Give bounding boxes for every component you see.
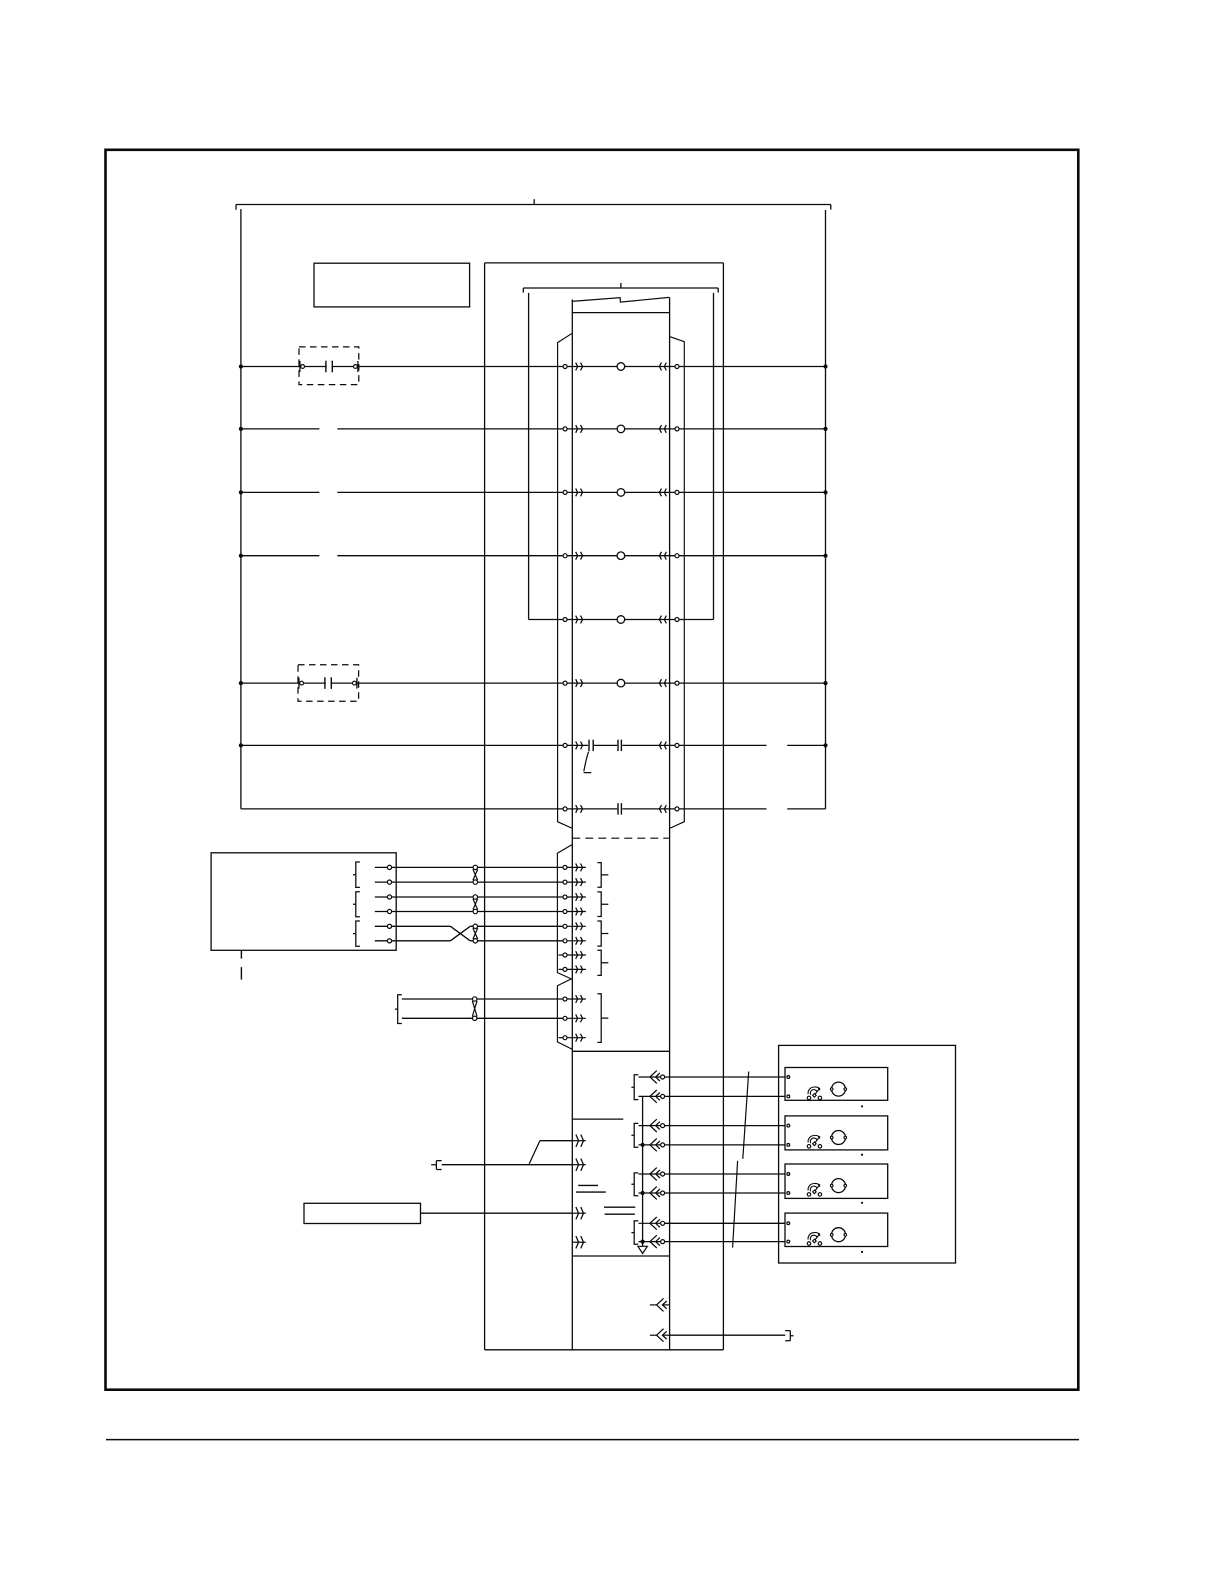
bus pin b1 — [639, 1071, 665, 1084]
pair bracket B6 — [597, 892, 608, 917]
sensor wire w4 — [375, 909, 563, 913]
connector C2 pin p5 — [563, 922, 586, 930]
pair bracket B2 — [353, 892, 360, 917]
junction row6 left — [239, 681, 243, 685]
inner bracket right — [713, 293, 715, 620]
gauge unit G2 motor symbol — [830, 1131, 846, 1145]
gauge feed wire 5 — [665, 1173, 785, 1175]
pair bracket B5 — [597, 863, 608, 888]
ground — [638, 1246, 647, 1253]
junction row3 left — [239, 490, 243, 494]
terminal T2 — [785, 1331, 793, 1341]
gauge feed wire 6 — [665, 1192, 785, 1194]
break mark c — [604, 1206, 635, 1208]
pair bracket B4 — [395, 995, 402, 1024]
speck 3 — [861, 1202, 863, 1204]
wire terminal T1 to C3 — [442, 1164, 573, 1166]
connector C1 pins row6 — [563, 679, 679, 687]
pair bracket B11 — [631, 1123, 638, 1147]
connector C2 pin p3 — [563, 893, 586, 901]
junction row2 right — [823, 427, 827, 431]
junction row4 left — [239, 554, 243, 558]
connector C2 pin p11 — [559, 1034, 586, 1042]
connector C1 torn top — [572, 297, 669, 302]
gauge unit G2 box — [785, 1116, 888, 1150]
gauge feed wire 2 — [665, 1095, 785, 1097]
sensor wire w5 crossover — [375, 924, 563, 941]
connector C1 pins row7 — [563, 739, 679, 751]
connector C2 pin p2 — [563, 878, 586, 886]
twisted pair T1 — [473, 865, 478, 884]
connector C1 right wall — [669, 297, 671, 1349]
connector C1 pins row8 — [563, 803, 679, 815]
gauge unit G2 pins — [787, 1124, 790, 1146]
connector C3 pin q4 — [572, 1236, 586, 1248]
connector C3 pin q3 — [572, 1207, 586, 1219]
harness box left edge — [484, 263, 486, 1350]
pair bracket B12 — [631, 1173, 638, 1196]
gauge unit G3 box — [785, 1164, 888, 1198]
gauge unit G3 motor symbol — [830, 1179, 846, 1193]
connector C1 pins row1 — [563, 363, 679, 371]
inner bracket left — [528, 293, 530, 620]
top box top edge — [236, 199, 831, 210]
compartment line — [573, 1118, 624, 1120]
gauge feed wire 1 — [665, 1076, 785, 1078]
connector C1 top divider — [572, 312, 669, 314]
gauge unit G1 meter icon — [807, 1087, 821, 1100]
wire row8 right — [787, 808, 825, 810]
sensor wire w2 — [375, 880, 563, 884]
gauge feed wire 3 — [665, 1125, 785, 1127]
sensor box — [211, 853, 396, 951]
bus pin b3 — [639, 1119, 665, 1132]
relay contact K1 terminals — [300, 360, 358, 373]
harness box right edge — [722, 263, 724, 1350]
pair bracket B1 — [353, 862, 360, 887]
gauge feed wire 4 — [665, 1144, 785, 1146]
twisted pair T2 — [473, 895, 478, 914]
gauge unit G1 pins — [787, 1076, 790, 1098]
sensor box dashed stub — [240, 951, 242, 980]
break mark a — [578, 1184, 598, 1186]
top box left edge — [240, 209, 242, 809]
connector C4 pin r2 — [650, 1329, 670, 1342]
pair bracket B10 — [631, 1075, 638, 1100]
ground bus junction 2 — [641, 1191, 645, 1195]
connector C4 pin r1 — [650, 1298, 670, 1311]
label box — [314, 263, 470, 307]
connector C1 shell right — [670, 337, 685, 829]
junction row1 left — [239, 364, 243, 368]
ground bus junction 1 — [641, 1143, 645, 1147]
relay contact K1 dashed box — [299, 347, 359, 385]
gauge feed wire 7 — [665, 1222, 785, 1224]
junction row6 right — [823, 681, 827, 685]
speck 2 — [861, 1154, 863, 1156]
connector C3 bottom line — [573, 1255, 670, 1257]
top box right edge — [825, 210, 827, 809]
bus pin b4 — [639, 1139, 665, 1152]
junction row2 left — [239, 427, 243, 431]
bus pin b5 — [639, 1168, 665, 1181]
wire row7 left — [241, 744, 767, 746]
connector C2 pin p6 — [563, 937, 586, 945]
bus pin b2 — [639, 1090, 665, 1103]
bus pin b7 — [639, 1217, 665, 1230]
sensor wire w1 — [375, 865, 563, 869]
branch elbow — [529, 1141, 572, 1164]
wire row4 right — [337, 555, 825, 557]
connector C2 pin p9 — [563, 995, 586, 1003]
harness slash mark — [733, 1072, 749, 1248]
wire C4 to terminal — [670, 1334, 786, 1336]
sensor wire w6 crossover — [375, 926, 563, 943]
wire row3 left — [241, 491, 320, 493]
shield wire g2 — [402, 1017, 563, 1019]
connector C2 pin p7 — [559, 951, 586, 959]
connector C1 pins row3 — [563, 489, 679, 497]
ground bus junction 3 — [641, 1240, 645, 1244]
connector C2 shell — [557, 845, 572, 1049]
connector C1 shell left — [558, 333, 573, 828]
gauge feed wire 8 — [665, 1241, 785, 1243]
twisted pair T3 — [473, 924, 478, 943]
bus pin b6 — [639, 1187, 665, 1200]
junction row4 right — [823, 554, 827, 558]
connector C2 bottom line — [572, 1050, 669, 1052]
wire row7 right — [787, 744, 825, 746]
connector C2 pin p8 — [559, 966, 586, 974]
gauge unit G4 meter icon — [807, 1233, 821, 1246]
resistor box — [304, 1203, 421, 1223]
connector C1 left wall — [571, 300, 573, 1350]
connector C2 pin p1 — [563, 864, 586, 872]
wire row5 — [529, 619, 714, 621]
connector C2 pin p10 — [563, 1014, 586, 1022]
connector C1 pins row2 — [563, 425, 679, 433]
wire row4 left — [241, 555, 320, 557]
footer rule — [106, 1439, 1079, 1441]
gauge unit G1 box — [785, 1068, 888, 1101]
connector C1 pins row5 — [563, 616, 679, 624]
gauge unit G4 pins — [787, 1222, 790, 1243]
break mark b — [576, 1191, 606, 1193]
sensor wire w3 — [375, 895, 563, 899]
harness box top edge — [485, 262, 724, 264]
gauge unit G4 motor symbol — [830, 1228, 846, 1242]
pair bracket B9 — [597, 994, 608, 1043]
wire row2 left — [241, 428, 320, 430]
pair bracket B3 — [353, 921, 360, 946]
wire resistor to C3 — [421, 1212, 573, 1214]
wire row8 left — [241, 808, 767, 810]
speck 4 — [861, 1251, 863, 1253]
terminal T1 — [431, 1161, 442, 1170]
junction row7 right — [823, 743, 827, 747]
gauge unit G3 meter icon — [807, 1183, 821, 1196]
inner bracket top — [523, 283, 718, 293]
shield wire g1 — [402, 998, 563, 1000]
pair bracket B13 — [631, 1221, 638, 1244]
frame border — [106, 150, 1079, 1390]
junction row3 right — [823, 490, 827, 494]
harness box bottom edge — [485, 1349, 724, 1351]
pair bracket B7 — [597, 921, 608, 946]
connector C3 pin q1 — [572, 1135, 586, 1147]
bus pin b8 — [639, 1235, 665, 1248]
connector C1 pins row4 — [563, 552, 679, 560]
junction row1 right — [823, 364, 827, 368]
wire row6 — [241, 682, 826, 684]
gauge unit G1 motor symbol — [830, 1082, 846, 1096]
break mark d — [605, 1213, 635, 1215]
gauge unit G4 box — [785, 1213, 888, 1246]
gauge unit G3 pins — [787, 1173, 790, 1195]
wire row3 right — [337, 491, 825, 493]
twisted pair T4 — [472, 997, 477, 1021]
pair bracket B8 — [597, 950, 608, 975]
relay contact K2 dashed box — [298, 665, 359, 701]
connector C3 pin q2 — [572, 1159, 586, 1171]
switch lever row7 — [584, 752, 592, 773]
wire row1 — [241, 366, 826, 368]
relay contact K2 terminals — [299, 677, 357, 690]
connector C1 dashed bottom — [572, 837, 669, 839]
wire row2 right — [337, 428, 825, 430]
ground bus — [642, 1096, 644, 1246]
junction row7 left — [239, 743, 243, 747]
connector C2 pin p4 — [563, 908, 586, 916]
gauge unit G2 meter icon — [807, 1135, 821, 1148]
speck 1 — [861, 1105, 863, 1107]
gauge cluster box — [779, 1045, 956, 1263]
